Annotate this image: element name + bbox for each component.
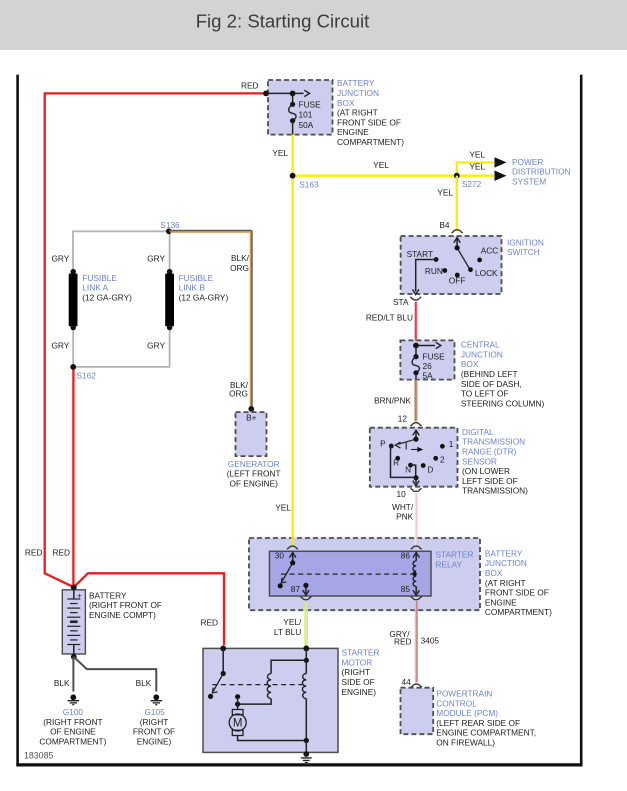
wire WHT/PNK inside outer box <box>414 536 416 547</box>
svg-text:BATTERY: BATTERY <box>485 548 523 558</box>
svg-text:RELAY: RELAY <box>436 559 463 569</box>
svg-text:SYSTEM: SYSTEM <box>512 176 546 186</box>
svg-text:START: START <box>407 249 433 259</box>
ground G105 <box>153 694 159 700</box>
svg-text:P: P <box>380 438 386 448</box>
svg-text:CONTROL: CONTROL <box>436 698 477 708</box>
svg-text:M: M <box>233 718 243 730</box>
svg-text:PNK: PNK <box>396 512 414 522</box>
node CJB entry <box>413 343 419 349</box>
svg-text:POWER: POWER <box>512 157 543 167</box>
svg-text:(LEFT REAR SIDE OF: (LEFT REAR SIDE OF <box>436 718 520 728</box>
digital transmission range sensor box <box>370 428 458 487</box>
svg-text:MOTOR: MOTOR <box>342 657 373 667</box>
connector at PCM <box>411 684 422 687</box>
svg-text:ENGINE): ENGINE) <box>342 687 377 697</box>
svg-text:B4: B4 <box>439 220 450 230</box>
svg-text:TO LEFT OF: TO LEFT OF <box>461 389 509 399</box>
svg-text:(BEHIND LEFT: (BEHIND LEFT <box>461 369 518 379</box>
node starter S entry <box>303 646 309 652</box>
wire P and N to output <box>391 446 417 477</box>
svg-text:85: 85 <box>401 584 411 594</box>
fusible link A <box>70 269 76 275</box>
starter motor M <box>232 710 243 715</box>
svg-text:(12 GA-GRY): (12 GA-GRY) <box>82 292 132 302</box>
svg-text:RED/LT BLU: RED/LT BLU <box>366 312 413 322</box>
svg-text:OFF: OFF <box>449 276 466 286</box>
fuse 26 5A <box>413 354 418 359</box>
node BJB entry <box>263 91 269 97</box>
ignition switch feed arrow <box>456 239 458 248</box>
svg-text:Fig 2: Starting Circuit: Fig 2: Starting Circuit <box>196 11 370 32</box>
svg-text:BLK: BLK <box>136 678 152 688</box>
wire YEL S272 branch up to power distribution <box>457 162 497 175</box>
generator box <box>236 412 267 456</box>
svg-text:BLK/: BLK/ <box>231 253 250 263</box>
svg-text:G105: G105 <box>144 707 165 717</box>
svg-text:LEFT SIDE OF: LEFT SIDE OF <box>462 476 518 486</box>
wire BLK battery to G100 <box>72 657 74 692</box>
title bar <box>0 0 627 50</box>
fuse 101 50A <box>290 102 295 107</box>
svg-text:STARTER: STARTER <box>436 550 474 560</box>
svg-text:BLK: BLK <box>54 678 70 688</box>
svg-text:S136: S136 <box>160 220 180 230</box>
svg-text:DISTRIBUTION: DISTRIBUTION <box>512 167 571 177</box>
svg-text:FRONT SIDE OF: FRONT SIDE OF <box>485 588 549 598</box>
node S136 <box>166 228 172 234</box>
DTR lever <box>398 439 416 444</box>
svg-text:DIGITAL: DIGITAL <box>462 427 494 437</box>
fusible link B <box>167 269 173 275</box>
starter relay inner box <box>270 551 432 596</box>
svg-text:YEL/: YEL/ <box>283 617 302 627</box>
battery junction box (starter relay) outer <box>249 538 480 610</box>
wire BLK battery to G105 <box>74 657 157 692</box>
relay mechanical link <box>281 573 415 575</box>
svg-text:(RIGHT: (RIGHT <box>140 717 169 727</box>
relay fixed contact <box>278 583 283 588</box>
svg-text:50A: 50A <box>299 120 314 130</box>
contact R <box>395 456 400 461</box>
svg-text:YEL: YEL <box>437 188 453 198</box>
contact LOCK <box>468 267 473 272</box>
contact N <box>408 463 413 468</box>
svg-text:(RIGHT FRONT: (RIGHT FRONT <box>43 717 102 727</box>
svg-text:(AT RIGHT: (AT RIGHT <box>337 108 378 118</box>
svg-text:GRY: GRY <box>51 254 69 264</box>
wire fuse feed inside BJB <box>266 92 304 94</box>
contact D <box>421 463 426 468</box>
starter motor box <box>203 648 338 752</box>
svg-text:LOCK: LOCK <box>475 268 498 278</box>
svg-text:BOX: BOX <box>485 568 503 578</box>
svg-text:SIDE OF DASH,: SIDE OF DASH, <box>461 379 522 389</box>
svg-text:MODULE (PCM): MODULE (PCM) <box>436 708 498 718</box>
svg-text:FRONT SIDE OF: FRONT SIDE OF <box>337 117 401 127</box>
svg-text:RED: RED <box>25 548 43 558</box>
relay coil pin 86 to 85 <box>415 554 417 561</box>
svg-text:RED: RED <box>52 548 70 558</box>
svg-text:2: 2 <box>440 455 445 465</box>
svg-text:JUNCTION: JUNCTION <box>485 558 527 568</box>
contact START <box>434 257 439 262</box>
contact RUN <box>442 268 447 273</box>
contact P <box>389 444 394 449</box>
svg-text:COMPARTMENT): COMPARTMENT) <box>39 737 106 747</box>
svg-text:BATTERY: BATTERY <box>89 590 127 600</box>
svg-text:TRANSMISSION: TRANSMISSION <box>462 437 525 447</box>
svg-text:1: 1 <box>449 439 454 449</box>
svg-text:FUSE: FUSE <box>299 99 322 109</box>
svg-text:GENERATOR: GENERATOR <box>228 459 280 469</box>
node fuse tap <box>290 91 296 97</box>
svg-text:YEL: YEL <box>275 502 291 512</box>
svg-text:RED: RED <box>394 637 412 647</box>
connector at DTR sensor <box>410 423 421 426</box>
node motor feed <box>235 694 240 699</box>
connector below pin 87 <box>300 597 311 600</box>
border frame bottom <box>16 763 582 766</box>
battery box <box>62 590 85 654</box>
ground G100 <box>70 694 76 700</box>
svg-text:BRN/PNK: BRN/PNK <box>374 395 411 405</box>
node DTR output <box>413 475 418 480</box>
node battery negative <box>71 654 77 660</box>
svg-text:(RIGHT: (RIGHT <box>342 667 371 677</box>
connector STA <box>410 297 421 300</box>
starter mechanical link <box>212 684 305 686</box>
battery plates <box>73 587 75 599</box>
starter solenoid windings <box>305 648 307 660</box>
relay pin 87 <box>303 583 308 588</box>
svg-text:(LEFT FRONT: (LEFT FRONT <box>227 469 281 479</box>
border frame right <box>580 75 583 766</box>
relay contact arm <box>282 563 293 581</box>
DTR pivot <box>413 437 418 442</box>
svg-text:YEL: YEL <box>469 150 485 160</box>
svg-text:GRY: GRY <box>147 254 165 264</box>
wire YEL S272 branch right to power distribution <box>457 174 497 176</box>
svg-text:POWERTRAIN: POWERTRAIN <box>436 689 492 699</box>
svg-text:LINK A: LINK A <box>82 283 108 293</box>
powertrain control module box <box>401 688 434 735</box>
svg-text:86: 86 <box>401 551 411 561</box>
svg-text:12: 12 <box>398 414 408 424</box>
svg-text:JUNCTION: JUNCTION <box>337 88 379 98</box>
svg-text:ON FIREWALL): ON FIREWALL) <box>436 738 495 748</box>
svg-text:STA: STA <box>393 297 409 307</box>
svg-text:44: 44 <box>401 677 411 687</box>
svg-text:BOX: BOX <box>337 98 355 108</box>
svg-text:ENGINE: ENGINE <box>485 597 517 607</box>
wire GRY top run S136 loop <box>73 231 169 271</box>
ignition switch pivot <box>455 245 460 250</box>
svg-text:COMPARTMENT): COMPARTMENT) <box>337 137 404 147</box>
svg-text:BATTERY: BATTERY <box>337 78 375 88</box>
node starter B+ entry <box>220 646 226 652</box>
svg-text:YEL: YEL <box>469 161 485 171</box>
svg-text:CENTRAL: CENTRAL <box>461 340 500 350</box>
node S163 <box>290 173 296 179</box>
connector below pin 85 <box>411 597 422 600</box>
relay contact pivot <box>290 560 295 565</box>
node battery positive <box>71 585 77 591</box>
svg-text:RED: RED <box>200 617 218 627</box>
svg-text:OF ENGINE): OF ENGINE) <box>229 478 278 488</box>
svg-text:ACC: ACC <box>481 246 499 256</box>
wire BLK/ORG S136 to generator <box>169 230 252 232</box>
svg-text:10: 10 <box>396 489 406 499</box>
wire RED battery junction box to battery <box>45 93 266 587</box>
svg-text:(12 GA-GRY): (12 GA-GRY) <box>179 292 229 302</box>
svg-text:RANGE (DTR): RANGE (DTR) <box>462 447 517 457</box>
arrow to power distribution (bottom) <box>495 171 507 181</box>
svg-text:(RIGHT FRONT OF: (RIGHT FRONT OF <box>89 600 162 610</box>
svg-text:FUSIBLE: FUSIBLE <box>179 273 214 283</box>
starter solenoid switch <box>222 648 224 673</box>
svg-text:S272: S272 <box>462 179 482 189</box>
svg-text:87: 87 <box>291 584 301 594</box>
svg-text:ENGINE COMPARTMENT,: ENGINE COMPARTMENT, <box>436 728 536 738</box>
connector pin 10 <box>410 488 421 491</box>
contact OFF <box>455 273 460 278</box>
svg-text:STEERING COLUMN): STEERING COLUMN) <box>461 398 545 408</box>
arrow to power distribution (top) <box>495 157 507 167</box>
wire RED/LT BLU ignition to central junction box <box>415 302 417 346</box>
DTR motion indicator <box>405 442 407 449</box>
connector relay pin 86 <box>411 546 422 549</box>
ignition switch lever <box>457 248 469 269</box>
svg-text:WHT/: WHT/ <box>392 502 414 512</box>
svg-text:BOX: BOX <box>461 359 479 369</box>
svg-text:TRANSMISSION): TRANSMISSION) <box>462 486 528 496</box>
wire START to STA output <box>416 260 436 292</box>
connector at ignition switch <box>452 230 463 233</box>
svg-text:G100: G100 <box>63 707 84 717</box>
svg-text:30: 30 <box>275 551 285 561</box>
wire YEL S272 to ignition switch <box>456 176 458 232</box>
svg-text:FUSIBLE: FUSIBLE <box>82 273 117 283</box>
svg-text:FUSE: FUSE <box>423 351 446 361</box>
svg-text:B+: B+ <box>246 413 257 423</box>
ignition switch box <box>401 236 502 294</box>
wire YEL S163 down to starter relay <box>291 176 293 547</box>
wire GRY/RED relay 85 to PCM <box>414 602 416 683</box>
relay pin 30 arrow <box>292 554 294 563</box>
svg-text:IGNITION: IGNITION <box>507 237 544 247</box>
svg-text:D: D <box>427 465 433 475</box>
svg-text:ORG: ORG <box>229 388 248 398</box>
svg-text:ENGINE COMPT): ENGINE COMPT) <box>89 610 156 620</box>
wire motor to ground bus <box>238 736 307 741</box>
node S272 <box>454 173 460 179</box>
wire YEL/LT BLU relay 87 to starter motor <box>304 602 306 649</box>
svg-text:RUN: RUN <box>425 266 443 276</box>
svg-text:RED: RED <box>241 81 259 91</box>
svg-text:SWITCH: SWITCH <box>507 247 540 257</box>
wire GRY right run <box>169 231 171 271</box>
wire YEL inside outer box <box>291 536 293 547</box>
svg-text:3405: 3405 <box>421 636 440 646</box>
svg-text:STARTER: STARTER <box>342 648 380 658</box>
wire RED S162 to battery <box>72 369 74 589</box>
central junction box (fuse 26) <box>400 340 454 379</box>
node S162 <box>70 364 76 370</box>
svg-text:ENGINE): ENGINE) <box>137 737 172 747</box>
svg-text:SIDE OF: SIDE OF <box>342 677 375 687</box>
svg-text:5A: 5A <box>423 370 434 380</box>
svg-text:LT BLU: LT BLU <box>274 627 301 637</box>
wire WHT/PNK DTR to starter relay <box>414 493 416 546</box>
svg-text:S163: S163 <box>299 180 319 190</box>
contact ACC <box>477 258 482 263</box>
svg-text:OF ENGINE: OF ENGINE <box>50 727 96 737</box>
svg-text:FRONT OF: FRONT OF <box>133 727 175 737</box>
svg-text:ORG: ORG <box>230 263 249 273</box>
battery junction box (fuse 101) <box>268 80 333 135</box>
svg-text:(ON LOWER: (ON LOWER <box>462 466 510 476</box>
node generator B+ <box>248 406 254 412</box>
contact 1 <box>440 444 445 449</box>
svg-text:S162: S162 <box>77 370 97 380</box>
svg-text:(AT RIGHT: (AT RIGHT <box>485 578 526 588</box>
svg-text:183085: 183085 <box>24 751 53 761</box>
wire fuse feed inside CJB <box>416 345 435 347</box>
svg-text:COMPARTMENT): COMPARTMENT) <box>485 607 552 617</box>
contact 2 <box>433 456 438 461</box>
svg-text:GRY: GRY <box>147 341 165 351</box>
svg-text:101: 101 <box>299 110 313 120</box>
svg-text:R: R <box>393 458 399 468</box>
wire BRN/PNK CJB to DTR sensor <box>414 380 416 422</box>
node ground bus <box>304 738 309 743</box>
svg-text:LINK B: LINK B <box>179 283 206 293</box>
svg-text:SENSOR: SENSOR <box>462 456 497 466</box>
wire YEL fuse101 to S163 <box>291 135 293 176</box>
svg-text:GRY: GRY <box>51 341 69 351</box>
svg-text:N: N <box>405 465 411 475</box>
ground at starter motor <box>303 751 309 757</box>
border frame left <box>16 75 19 766</box>
svg-text:JUNCTION: JUNCTION <box>461 349 503 359</box>
svg-text:ENGINE: ENGINE <box>337 127 369 137</box>
svg-text:YEL: YEL <box>373 160 389 170</box>
wire RED battery to starter motor <box>74 573 224 645</box>
svg-text:-: - <box>78 644 81 654</box>
connector relay pin 30 <box>287 546 298 549</box>
wire YEL S163 to S272 <box>293 174 457 176</box>
wire GRY bottom runs to S162 <box>73 328 169 367</box>
svg-text:YEL: YEL <box>272 148 288 158</box>
DTR feed arrow <box>415 432 417 440</box>
